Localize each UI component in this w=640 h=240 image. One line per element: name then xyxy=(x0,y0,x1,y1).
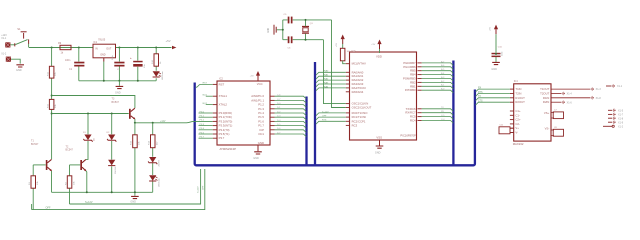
svg-text:X1-1: X1-1 xyxy=(1,37,7,40)
svg-text:X1-4: X1-4 xyxy=(567,93,573,96)
svg-text:IC2: IC2 xyxy=(219,78,224,81)
svg-text:X1-5: X1-5 xyxy=(618,109,624,112)
svg-text:LED5mm: LED5mm xyxy=(159,178,161,187)
svg-text:GND: GND xyxy=(130,201,136,204)
svg-text:R1OUT: R1OUT xyxy=(515,96,525,100)
svg-text:OUT: OUT xyxy=(106,47,112,50)
svg-text:X1-9: X1-9 xyxy=(618,121,624,124)
svg-text:BC547: BC547 xyxy=(112,101,120,104)
svg-text:P3.7: P3.7 xyxy=(219,136,225,140)
svg-text:VSS: VSS xyxy=(376,136,382,140)
svg-text:S+12V: S+12V xyxy=(85,201,93,204)
svg-text:BC547: BC547 xyxy=(66,149,74,152)
svg-text:100n: 100n xyxy=(65,59,71,62)
svg-text:+: + xyxy=(130,56,132,60)
svg-text:+5V: +5V xyxy=(250,76,254,78)
svg-text:CTS: CTS xyxy=(478,101,483,103)
svg-text:VS-: VS- xyxy=(545,127,550,131)
svg-text:IC3: IC3 xyxy=(352,50,357,53)
svg-text:P3.2: P3.2 xyxy=(200,120,205,122)
svg-text:S+12V: S+12V xyxy=(322,111,329,113)
svg-text:+5V: +5V xyxy=(336,43,338,47)
svg-text:X1-8: X1-8 xyxy=(596,97,602,100)
svg-text:ZD: ZD xyxy=(94,138,96,141)
svg-text:VS+: VS+ xyxy=(544,111,550,115)
svg-text:XTAL1: XTAL1 xyxy=(219,94,228,98)
svg-text:AT90S2313P: AT90S2313P xyxy=(220,147,237,151)
svg-text:GND: GND xyxy=(268,28,270,33)
svg-text:X1-2: X1-2 xyxy=(1,53,7,56)
svg-text:X1-2: X1-2 xyxy=(618,125,624,128)
svg-text:OFF: OFF xyxy=(202,185,204,190)
svg-text:GND: GND xyxy=(258,141,264,145)
svg-text:GND: GND xyxy=(375,152,381,155)
svg-text:RTS: RTS xyxy=(478,92,483,94)
svg-text:BC547: BC547 xyxy=(31,143,39,146)
svg-text:VCC: VCC xyxy=(257,82,263,86)
svg-text:RC4: RC4 xyxy=(410,119,416,123)
svg-text:IC4: IC4 xyxy=(514,80,519,83)
svg-text:GND: GND xyxy=(115,92,121,95)
svg-text:OFF: OFF xyxy=(322,116,327,118)
svg-text:VDD: VDD xyxy=(376,55,382,59)
svg-text:PIC16F870P: PIC16F870P xyxy=(400,134,416,138)
svg-text:OFF: OFF xyxy=(46,207,51,210)
svg-text:+5V: +5V xyxy=(166,39,171,43)
svg-text:+5V: +5V xyxy=(489,27,491,31)
svg-text:OC1: OC1 xyxy=(258,132,264,136)
svg-text:+12V: +12V xyxy=(1,34,7,37)
svg-text:RST: RST xyxy=(219,82,225,86)
svg-text:78L05: 78L05 xyxy=(98,38,106,42)
svg-text:1N4148: 1N4148 xyxy=(115,166,117,174)
svg-text:100n: 100n xyxy=(112,54,114,60)
svg-text:X1-3: X1-3 xyxy=(596,88,602,91)
svg-text:+5V: +5V xyxy=(371,44,375,46)
svg-text:T1IN: T1IN xyxy=(515,87,521,91)
svg-text:TX: TX xyxy=(478,96,481,98)
svg-text:RTS: RTS xyxy=(322,120,327,122)
svg-text:X1-8: X1-8 xyxy=(618,117,624,120)
svg-text:+12V: +12V xyxy=(160,121,166,123)
svg-text:LED5mm: LED5mm xyxy=(162,71,164,80)
svg-text:GND: GND xyxy=(100,54,106,57)
svg-text:RA5/AN4: RA5/AN4 xyxy=(352,90,364,94)
svg-text:OSC2/CLKOUT: OSC2/CLKOUT xyxy=(352,106,372,110)
svg-text:GND: GND xyxy=(253,157,259,160)
svg-text:GND: GND xyxy=(16,69,22,72)
svg-text:T1OUT: T1OUT xyxy=(540,87,549,91)
svg-text:INT/RB0: INT/RB0 xyxy=(405,88,416,92)
svg-text:GND: GND xyxy=(491,68,497,71)
svg-text:MCLR/THV: MCLR/THV xyxy=(352,62,366,66)
svg-text:MAX232: MAX232 xyxy=(513,142,524,146)
svg-text:ZD3V9: ZD3V9 xyxy=(159,159,161,166)
svg-text:X1-6: X1-6 xyxy=(567,101,573,104)
svg-text:S+12V: S+12V xyxy=(198,186,200,193)
svg-text:XTAL2: XTAL2 xyxy=(219,103,228,107)
svg-text:X1-1: X1-1 xyxy=(617,85,623,88)
svg-text:S1: S1 xyxy=(17,27,21,31)
svg-text:R1IN: R1IN xyxy=(543,96,549,100)
svg-text:RX: RX xyxy=(478,88,482,90)
svg-text:V-: V- xyxy=(515,131,518,135)
svg-text:R2OUT: R2OUT xyxy=(515,100,525,104)
svg-text:R2IN: R2IN xyxy=(543,100,549,104)
svg-text:X1-7: X1-7 xyxy=(618,114,624,117)
svg-text:RC3: RC3 xyxy=(352,123,358,127)
svg-text:IN: IN xyxy=(95,47,98,50)
